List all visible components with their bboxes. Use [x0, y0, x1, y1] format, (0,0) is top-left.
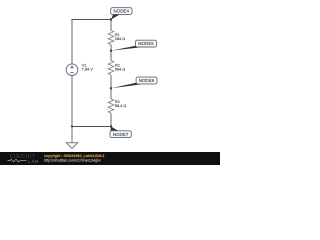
resistor R1: [108, 31, 114, 45]
node NODE6 callout: [111, 77, 157, 88]
junction node between R1 and R2: [110, 50, 112, 52]
wire right vertical segment R2 to R3: [110, 75, 112, 99]
svg-text:NODE6: NODE6: [139, 78, 155, 83]
voltage source V1: [66, 64, 78, 76]
wire bottom horizontal: [71, 126, 111, 128]
node NODE4 callout: [111, 8, 132, 20]
footer CircuitLab logo: [8, 154, 39, 165]
wire right vertical segment R1 to R2: [110, 45, 112, 61]
wire right vertical segment top (node4 to R1): [110, 20, 112, 31]
svg-text:7.84 V: 7.84 V: [82, 67, 94, 72]
wire top horizontal: [71, 19, 111, 21]
svg-text:584 Ω: 584 Ω: [115, 66, 126, 71]
node NODE7 callout: [110, 127, 131, 138]
resistor R2: [108, 61, 114, 75]
svg-text:88.4 Ω: 88.4 Ω: [115, 103, 127, 108]
wire left vertical (bottom half): [71, 76, 73, 127]
svg-text:http://circuitlab.com/c17krws1: http://circuitlab.com/c17krws124gkv: [44, 158, 101, 162]
svg-text:NODE4: NODE4: [114, 9, 130, 14]
junction bottom right corner: [110, 125, 112, 127]
footer bar: [0, 152, 220, 165]
node NODE5 callout: [111, 40, 157, 51]
wire left vertical (top half): [71, 20, 73, 64]
junction dot top right corner: [110, 18, 112, 20]
svg-text:NODE7: NODE7: [113, 132, 129, 137]
svg-text:LAB: LAB: [28, 159, 39, 165]
wire right vertical segment R3 to bottom: [110, 113, 112, 126]
resistor R3: [108, 99, 114, 113]
ground: [66, 127, 77, 149]
svg-text:284 Ω: 284 Ω: [115, 36, 126, 41]
svg-text:NODE5: NODE5: [138, 41, 154, 46]
junction node between R2 and R3: [110, 87, 112, 89]
junction bottom left (ground tap): [71, 125, 73, 127]
